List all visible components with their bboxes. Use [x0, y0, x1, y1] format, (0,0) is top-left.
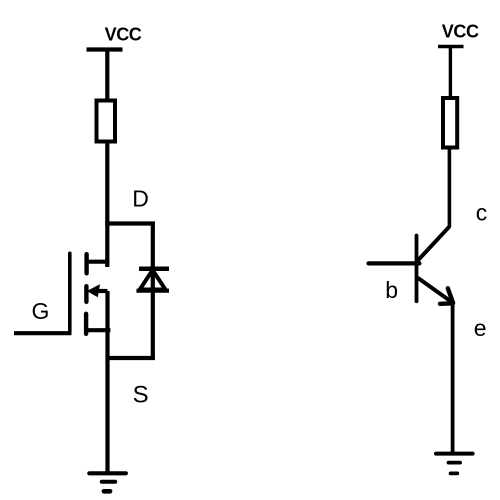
svg-text:e: e	[474, 315, 487, 341]
svg-text:c: c	[476, 200, 488, 226]
svg-text:G: G	[32, 298, 50, 324]
svg-text:D: D	[132, 185, 149, 211]
svg-text:VCC: VCC	[105, 25, 142, 45]
svg-text:b: b	[385, 277, 398, 303]
svg-text:S: S	[133, 381, 149, 408]
svg-text:VCC: VCC	[442, 21, 479, 41]
